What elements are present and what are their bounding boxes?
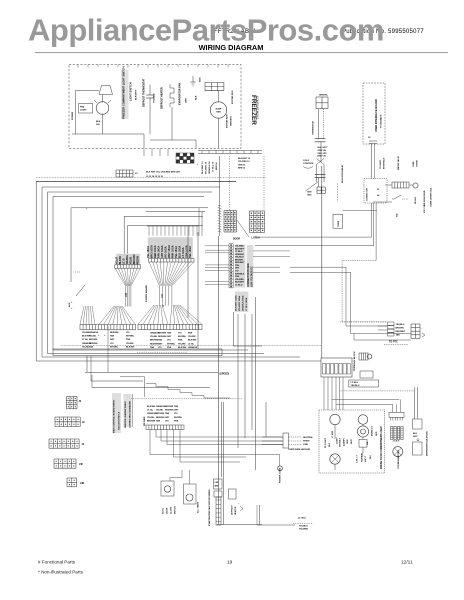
svg-text:BROWN: BROWN — [158, 333, 167, 335]
svg-text:RED/WH: RED/WH — [110, 332, 119, 334]
svg-text:LT. BLU: LT. BLU — [298, 518, 306, 520]
svg-text:LT. BLU: LT. BLU — [351, 382, 359, 384]
svg-text:ORN: ORN — [347, 439, 349, 444]
svg-text:RED/WHT: RED/WHT — [396, 331, 406, 333]
svg-text:VIO: VIO — [178, 333, 182, 335]
svg-text:WHT/BLK: WHT/BLK — [340, 437, 342, 447]
svg-text:INTERFACE: INTERFACE — [383, 157, 386, 169]
svg-text:GRY: GRY — [323, 153, 328, 155]
svg-text:CLOSE: CLOSE — [171, 506, 173, 514]
svg-text:TAN: TAN — [89, 345, 94, 348]
svg-text:LINE: LINE — [303, 444, 308, 446]
svg-text:BLK/WHT: BLK/WHT — [136, 89, 138, 100]
svg-text:POWER: POWER — [72, 111, 74, 120]
svg-text:VIO: VIO — [158, 347, 162, 349]
svg-text:COMPARTMENT: COMPARTMENT — [256, 96, 260, 119]
svg-text:PNK: PNK — [174, 420, 179, 422]
svg-text:VIO: VIO — [167, 340, 171, 342]
svg-text:BLK: BLK — [196, 95, 198, 100]
svg-text:RED: RED — [376, 431, 378, 436]
svg-text:CRUSH: CRUSH — [417, 159, 419, 167]
svg-text:EVAPORATOR FAN: EVAPORATOR FAN — [179, 83, 182, 105]
svg-text:* Non-Illustrated Parts: * Non-Illustrated Parts — [38, 570, 84, 575]
svg-text:TAN: TAN — [235, 264, 240, 267]
svg-text:TAN: TAN — [174, 405, 179, 408]
svg-text:YEL/RED: YEL/RED — [154, 93, 156, 103]
svg-text:BLK: BLK — [318, 147, 323, 149]
svg-text:YEL/BL: YEL/BL — [150, 336, 158, 338]
svg-text:BROWN: BROWN — [147, 420, 156, 422]
svg-text:BLK/WH: BLK/WH — [147, 406, 156, 408]
svg-text:TAN: TAN — [158, 339, 163, 342]
svg-text:LT BLU 16: LT BLU 16 — [213, 161, 215, 172]
svg-text:BRN 14: BRN 14 — [215, 162, 218, 170]
svg-text:YEL/RE: YEL/RE — [126, 343, 134, 345]
svg-text:SW LT: SW LT — [365, 455, 367, 462]
svg-text:TAN: TAN — [110, 335, 115, 338]
svg-text:YEL/BL: YEL/BL — [147, 417, 155, 419]
svg-text:GRN/YEL: GRN/YEL — [319, 95, 329, 97]
svg-text:(LAMP): (LAMP) — [343, 438, 346, 446]
svg-text:GRN: GRN — [307, 192, 312, 194]
svg-text:PNK: PNK — [167, 347, 172, 349]
svg-text:LT. BL: LT. BL — [147, 410, 154, 412]
svg-text:YEL/BL: YEL/BL — [89, 336, 97, 338]
svg-text:TERMINAL BLOCK: TERMINAL BLOCK — [353, 351, 356, 371]
svg-text:CONTROL: CONTROL — [303, 163, 314, 165]
svg-text:WHT: WHT — [323, 147, 328, 149]
svg-text:TAN: TAN — [396, 334, 401, 337]
svg-text:AUX: AUX — [68, 302, 71, 307]
svg-text:FRZ: FRZ — [80, 107, 85, 109]
svg-text:GND: GND — [307, 194, 312, 196]
svg-text:242115302 REV A: 242115302 REV A — [118, 412, 121, 430]
svg-text:LIGHT: LIGHT — [337, 437, 339, 444]
svg-text:BROWN: BROWN — [235, 259, 243, 261]
svg-text:CUBE CRUSH SOL: CUBE CRUSH SOL — [431, 187, 433, 207]
svg-text:SW: SW — [397, 214, 399, 217]
svg-text:BRN 12: BRN 12 — [238, 168, 246, 170]
svg-text:AUX: AUX — [199, 77, 202, 82]
svg-text:YEL/RED: YEL/RED — [299, 529, 309, 531]
svg-text:ALL TIMER: ALL TIMER — [197, 501, 200, 513]
svg-text:AUTO: AUTO — [162, 508, 165, 514]
svg-text:RD WIRE: RD WIRE — [144, 416, 146, 426]
svg-text:WHT/BL: WHT/BL — [178, 336, 187, 338]
svg-text:YEL/RE: YEL/RE — [188, 336, 196, 338]
svg-text:ORN/BLK 18GA: ORN/BLK 18GA — [242, 295, 245, 311]
svg-text:DISPENSER SOLENOID: DISPENSER SOLENOID — [427, 431, 429, 456]
svg-text:WHT: WHT — [351, 439, 353, 444]
svg-text:THERMOSTAT: THERMOSTAT — [312, 120, 315, 135]
svg-text:REMOVE JUMPER WHEN: REMOVE JUMPER WHEN — [125, 401, 127, 428]
svg-text:ORN: ORN — [186, 98, 188, 103]
svg-text:YEL/RED 18GA: YEL/RED 18GA — [238, 295, 241, 311]
svg-text:HIGH FOR DELAY: HIGH FOR DELAY — [341, 164, 344, 183]
svg-text:THIRD WIRE GROUND: THIRD WIRE GROUND — [288, 449, 311, 451]
svg-text:12/11: 12/11 — [401, 560, 413, 566]
svg-text:LT BLU 18GA: LT BLU 18GA — [245, 297, 248, 311]
svg-text:BLK: BLK — [370, 454, 372, 459]
svg-text:FREEZER COMPARTMENT LIGHT SWIT: FREEZER COMPARTMENT LIGHT SWITCH — [122, 66, 126, 119]
svg-text:BLK: BLK — [413, 433, 418, 435]
svg-text:LT 40W: LT 40W — [331, 431, 334, 438]
svg-text:(SPEED): (SPEED) — [220, 373, 230, 376]
svg-text:BLK/WHT: BLK/WHT — [235, 248, 245, 250]
svg-text:DEFROST HEATER: DEFROST HEATER — [161, 87, 164, 109]
svg-text:YEL/BLU: YEL/BLU — [235, 257, 244, 259]
svg-text:EVAPORATOR FAN MOTOR WIRES: EVAPORATOR FAN MOTOR WIRES — [208, 489, 211, 526]
svg-text:WHT: WHT — [413, 436, 418, 438]
svg-text:BLK: BLK — [96, 121, 101, 123]
svg-text:VIO: VIO — [126, 332, 130, 334]
svg-text:TAN: TAN — [150, 346, 155, 349]
svg-text:VIO: VIO — [174, 413, 178, 415]
svg-text:RED/WH: RED/WH — [158, 336, 167, 338]
svg-text:BLK/WH: BLK/WH — [126, 346, 135, 348]
svg-text:DOOR: DOOR — [233, 238, 240, 241]
svg-text:RED/WH: RED/WH — [156, 417, 165, 419]
svg-text:YEL/RED 10: YEL/RED 10 — [206, 161, 208, 174]
svg-text:LT. BL: LT. BL — [82, 339, 89, 341]
svg-text:FAN: FAN — [216, 111, 221, 114]
svg-text:MAIN CONTROL BOARD PART#: MAIN CONTROL BOARD PART# — [113, 399, 116, 433]
svg-text:TIMER: TIMER — [338, 220, 340, 227]
svg-text:RED/WH: RED/WH — [89, 343, 98, 345]
svg-text:VIO: VIO — [323, 156, 327, 158]
svg-text:YEL/RED 10: YEL/RED 10 — [238, 161, 250, 163]
svg-text:COLD: COLD — [303, 160, 310, 162]
svg-text:YEL/BLU: YEL/BLU — [299, 526, 308, 528]
svg-text:TO USER: TO USER — [380, 160, 382, 169]
svg-text:DEFROST THERMOSTAT: DEFROST THERMOSTAT — [143, 78, 146, 107]
svg-text:CAP: CAP — [215, 481, 220, 484]
svg-text:GRY: GRY — [158, 343, 163, 345]
svg-text:YEL/BL: YEL/BL — [156, 410, 164, 412]
svg-text:MOTOR RUN: MOTOR RUN — [232, 90, 234, 104]
svg-text:LIGHT: LIGHT — [80, 110, 87, 112]
svg-text:BLK/WH: BLK/WH — [188, 340, 197, 342]
svg-text:CONNECTING ICEMAKER: CONNECTING ICEMAKER — [129, 401, 132, 428]
svg-text:GRY: GRY — [167, 336, 172, 338]
svg-text:BLK WHT YEL ORN RED BRN: BLK WHT YEL ORN RED BRN GRY — [146, 172, 181, 174]
svg-text:BLK/WHT 12: BLK/WHT 12 — [238, 158, 251, 160]
svg-text:CUBE: CUBE — [413, 161, 415, 167]
svg-text:CTR. LT: CTR. LT — [357, 454, 359, 463]
svg-text:WHT/BL: WHT/BL — [126, 336, 135, 338]
svg-text:WHT/BL: WHT/BL — [167, 343, 176, 345]
svg-text:NORMAL: NORMAL — [361, 452, 364, 462]
svg-text:YEL/RED: YEL/RED — [235, 246, 244, 248]
svg-text:GRY: GRY — [235, 268, 240, 270]
svg-text:PNK: PNK — [178, 340, 183, 342]
svg-text:GRY: GRY — [110, 339, 115, 341]
svg-text:NEUTRAL: NEUTRAL — [303, 436, 314, 439]
svg-text:TAN: TAN — [156, 419, 161, 422]
svg-text:19: 19 — [227, 560, 233, 566]
svg-text:CONDENSER FAN: CONDENSER FAN — [397, 450, 400, 469]
svg-text:POWER CORD: POWER CORD — [280, 467, 282, 483]
svg-text:ORANGE: ORANGE — [188, 346, 198, 349]
svg-text:YEL/RED: YEL/RED — [235, 279, 244, 281]
svg-text:ORANGE: ORANGE — [235, 253, 244, 256]
svg-text:TO PTC: TO PTC — [389, 341, 398, 344]
svg-text:VIO: VIO — [165, 420, 169, 422]
svg-text:YEL/BLU: YEL/BLU — [396, 324, 405, 326]
svg-text:BLK/WHT 12: BLK/WHT 12 — [202, 161, 204, 174]
svg-text:WHITE: WHITE — [303, 440, 310, 442]
svg-text:GRY: GRY — [174, 410, 179, 412]
svg-text:WHT/BLK: WHT/BLK — [235, 273, 245, 275]
svg-text:MOTOR RUN: MOTOR RUN — [227, 114, 229, 128]
svg-text:LOW VOLTAGE DC: LOW VOLTAGE DC — [250, 266, 253, 287]
svg-text:BROWN: BROWN — [156, 413, 165, 415]
svg-text:PNK: PNK — [126, 339, 131, 341]
svg-text:SW: SW — [367, 442, 369, 445]
svg-text:WHT/BL: WHT/BL — [174, 417, 183, 419]
svg-text:ORN 14: ORN 14 — [238, 163, 246, 166]
svg-text:LIGHT SWITCH: LIGHT SWITCH — [129, 82, 133, 101]
svg-text:RED/WH: RED/WH — [165, 410, 174, 412]
svg-text:J 5 A S: J 5 A S — [393, 440, 400, 443]
svg-text:BROWN: BROWN — [165, 406, 174, 408]
svg-text:J4B: J4B — [80, 482, 85, 485]
svg-text:LT. BL: LT. BL — [188, 343, 195, 345]
svg-text:BLK: BLK — [329, 442, 331, 447]
svg-text:WINDING: WINDING — [231, 116, 233, 126]
svg-text:LT. BLU: LT. BLU — [235, 251, 243, 253]
svg-text:ICE CUBE SOLENOID: ICE CUBE SOLENOID — [424, 190, 426, 213]
svg-text:YEL 16GA: YEL 16GA — [189, 246, 192, 258]
svg-text:LT. BLU: LT. BLU — [235, 284, 243, 286]
svg-text:WHT/BL: WHT/BL — [110, 346, 119, 348]
svg-text:DOME LT: DOME LT — [372, 426, 374, 436]
svg-text:DEFROST: DEFROST — [232, 504, 234, 515]
svg-text:RED/WHT: RED/WHT — [235, 262, 245, 264]
svg-text:GRY: GRY — [165, 417, 170, 419]
svg-text:WATER VALVE: WATER VALVE — [397, 155, 400, 170]
svg-text:P# 242048201: P# 242048201 — [380, 114, 383, 128]
svg-text:CONNECTOR BOARD: CONNECTOR BOARD — [247, 263, 250, 287]
svg-text:CONNECTOR: CONNECTOR — [367, 188, 369, 201]
svg-text:HEATER: HEATER — [234, 506, 237, 515]
svg-text:YEL/BLU: YEL/BLU — [351, 385, 360, 387]
svg-text:USER INTERFACE BOARD: USER INTERFACE BOARD — [374, 99, 378, 132]
svg-text:BLK/WHT 18GA: BLK/WHT 18GA — [235, 295, 238, 311]
svg-text:VIO: VIO — [235, 271, 239, 273]
svg-text:DOOR: DOOR — [167, 507, 169, 514]
svg-text:# Functional Parts: # Functional Parts — [38, 560, 76, 565]
svg-text:TAN: TAN — [165, 412, 170, 415]
svg-text:PNK: PNK — [188, 333, 193, 335]
svg-text:RELAY: RELAY — [414, 197, 417, 204]
svg-text:BLK/WHT: BLK/WHT — [235, 282, 245, 284]
svg-text:WIRING DIAGRAM: WIRING DIAGRAM — [199, 43, 264, 52]
svg-text:YEL/RE: YEL/RE — [178, 343, 186, 345]
svg-text:BROWN: BROWN — [89, 339, 98, 341]
svg-text:PNK: PNK — [235, 276, 240, 278]
svg-text:FF LIGHT: FF LIGHT — [325, 437, 327, 448]
svg-text:TAN: TAN — [167, 332, 172, 335]
svg-text:J4F: J4F — [79, 463, 84, 466]
svg-text:ORN/BLK 14: ORN/BLK 14 — [208, 161, 211, 174]
svg-text:BLK/WH: BLK/WH — [178, 347, 187, 349]
svg-text:BROWN: BROWN — [396, 327, 405, 329]
svg-text:FRESH FOOD COMPARTMENT LIGHT: FRESH FOOD COMPARTMENT LIGHT — [380, 426, 383, 469]
svg-text:POWER BOARD: POWER BOARD — [145, 285, 148, 302]
svg-text:VIO: VIO — [110, 343, 114, 345]
svg-text:RED/W: RED/W — [137, 255, 140, 264]
svg-text:EVAP: EVAP — [216, 108, 222, 111]
svg-text:MOTOR: MOTOR — [175, 506, 177, 514]
